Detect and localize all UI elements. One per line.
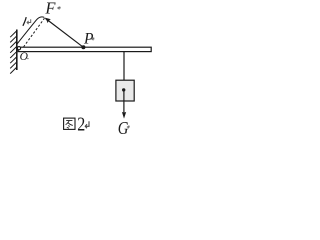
center-of-gravity dot (122, 88, 125, 91)
return mark after P (91, 37, 95, 41)
return mark after caption (85, 121, 89, 128)
node P dot (81, 45, 85, 49)
string to weight (123, 51, 125, 80)
force F line from P (46, 19, 84, 48)
svg-text:O: O (20, 51, 29, 63)
return mark after l (27, 19, 31, 24)
G arrow shaft (123, 90, 125, 113)
lever beam OA (18, 47, 151, 51)
svg-text:G: G (118, 117, 129, 138)
svg-text:2: 2 (77, 113, 85, 135)
label l (23, 17, 26, 26)
caption 图 (drawn glyph) (64, 118, 75, 129)
svg-text:F: F (44, 0, 56, 17)
G arrowhead (122, 112, 126, 119)
arrowhead of F (44, 18, 51, 24)
wall (10, 30, 17, 74)
return mark after G (127, 125, 130, 128)
solid lever-arm curve from O (16, 17, 44, 45)
return mark after F (57, 6, 61, 10)
weight block (116, 80, 134, 101)
hinge O (17, 47, 20, 50)
dashed lever arm l (24, 18, 45, 47)
